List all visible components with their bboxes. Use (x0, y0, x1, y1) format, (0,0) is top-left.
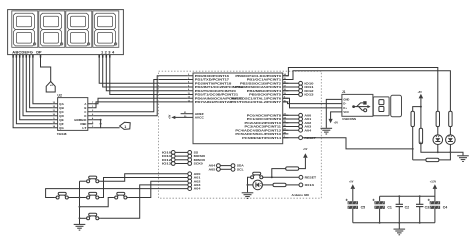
U2 right pin numbers (92, 102, 94, 128)
svg-text:C4: C4 (443, 205, 448, 209)
ground (capacitor bank) (394, 229, 406, 235)
wire S1 to A00 (100, 174, 188, 181)
svg-text:C1: C1 (387, 205, 392, 209)
wire S6 to ground bus (80, 217, 86, 219)
wire +5V rail right (420, 98, 422, 106)
svg-text:ABCDEFG: ABCDEFG (12, 50, 33, 55)
wire U2 BI/RBO RBI LT tie (93, 120, 100, 128)
wire +5V to resistor R5 (420, 107, 422, 131)
junction C2 top (398, 195, 400, 197)
display digit 2 segments (41, 13, 62, 46)
junction RBI (100, 123, 102, 125)
svg-text:A04: A04 (194, 187, 202, 191)
LED L13 pin13 indicator (253, 180, 263, 190)
ground (led bus) (457, 156, 469, 162)
svg-text:SCL: SCL (237, 167, 244, 171)
wire MCU PB2 to IO10 (283, 82, 299, 84)
wire C2 to top rail (398, 196, 400, 204)
MCU right pin labels PB (231, 74, 282, 104)
net stub SS (188, 151, 192, 155)
net stub circle IO12 (171, 158, 175, 162)
J1 pin labels (343, 97, 349, 114)
display pin pads (13, 55, 110, 58)
svg-text:VCC: VCC (343, 110, 349, 114)
net stub circle A04 (button side) (188, 187, 192, 191)
wire MCU PC6 to RESET stub (283, 137, 299, 139)
svg-text:A01: A01 (304, 117, 312, 121)
LED D1 (433, 135, 443, 145)
wire S6 to A03 (100, 185, 188, 218)
display digit 3 segments (68, 13, 89, 46)
wire MCU PB1 to LED2 column (283, 71, 451, 112)
wire S2 to ground bus (70, 197, 80, 199)
capacitor C3 ceramic (416, 204, 423, 206)
wire C3 to bottom rail (419, 207, 421, 223)
svg-text:C3: C3 (425, 205, 430, 209)
capacitor C2 ceramic (396, 204, 403, 206)
svg-text:LT: LT (82, 126, 86, 130)
svg-text:U2: U2 (57, 93, 62, 97)
wire RESET net to pullup junction (303, 138, 413, 149)
net stub RESET (button side) (299, 175, 303, 179)
wire IO10 to SS (175, 151, 188, 153)
svg-text:+5V: +5V (303, 148, 308, 151)
MCU right pin labels PC (235, 114, 281, 140)
resistor R6 (426, 158, 439, 161)
wire MCU PC4 to A04 (283, 129, 299, 131)
wire LED1 to bus (437, 145, 439, 153)
pushbutton S3 middle (85, 192, 100, 199)
USB plug metal shell (373, 97, 389, 116)
MCU left pin stubs PD0-PD7 (187, 76, 193, 102)
wire display com 4 to MCU PD5 (110, 55, 188, 95)
resistor R2 reset pullup (286, 167, 299, 170)
resistor R8 LED2 series (449, 111, 452, 126)
wire +3.3V to C4 (434, 189, 436, 201)
display digit 4 segments (95, 13, 116, 46)
svg-text:A00: A00 (304, 113, 312, 117)
junction LED13 cathode (247, 184, 249, 186)
wire A05 to SCL (220, 168, 231, 170)
U2 left pin labels (59, 102, 65, 130)
svg-text:1234: 1234 (101, 50, 115, 55)
svg-text:PD7/AIN1/PCINT23: PD7/AIN1/PCINT23 (195, 100, 232, 104)
svg-text:DP: DP (36, 50, 42, 55)
wire MCU PC0 to A00 (283, 114, 299, 116)
wire display segment F to U2 QB (30, 55, 53, 108)
wire display segment C to U2 QE (20, 55, 53, 120)
pushbutton S2 left (55, 192, 70, 199)
wire S3 to A01 (100, 178, 188, 198)
ground (button bus) (74, 224, 86, 230)
junction C3 bottom (419, 222, 421, 224)
svg-text:D+: D+ (343, 106, 347, 110)
wire R2 to reset button junction (272, 169, 286, 178)
wire LED2 to bus (449, 145, 451, 153)
junction bus S2/S3 (79, 197, 81, 199)
junction reset button node (271, 176, 273, 178)
net stub circle A05 i2c (217, 167, 221, 171)
net stub A03 (299, 125, 303, 129)
wire S1 to ground bus (80, 180, 86, 182)
display digit 1 decimal point (33, 43, 35, 45)
wire R7 to LED1 (437, 127, 439, 135)
net stub IO10 (299, 81, 303, 85)
wire +5V to C5 (352, 189, 354, 201)
svg-text:IO13: IO13 (162, 162, 172, 166)
wire A04 to SDA (220, 165, 231, 167)
capacitor C1 electrolytic (374, 201, 384, 209)
wire C2 to bottom rail (398, 207, 400, 229)
wire S3 to ground bus (80, 197, 86, 199)
wire U2 C to MCU PD1 (93, 80, 187, 112)
USB shell contact hole 1 (379, 100, 384, 105)
MCU AVCC pin stub (175, 116, 193, 118)
wire display com 1 to MCU PD2 (99, 55, 187, 84)
svg-text:PB7/TOSC2/XTAL2/PCINT7: PB7/TOSC2/XTAL2/PCINT7 (231, 100, 282, 104)
wire R3 to IO13 stub (286, 184, 299, 186)
pushbutton S1 top (85, 176, 100, 183)
U2 left pin numbers (53, 102, 56, 128)
svg-text:IO11: IO11 (304, 85, 314, 89)
svg-text:MISO0: MISO0 (194, 158, 206, 162)
svg-text:Arduino 328: Arduino 328 (292, 193, 310, 197)
svg-text:IO10: IO10 (304, 81, 314, 85)
svg-text:SCK0: SCK0 (194, 162, 204, 166)
USB shell contact hole 2 (379, 107, 384, 112)
svg-text:+5V: +5V (334, 121, 339, 124)
svg-text:A04: A04 (304, 128, 312, 132)
MCU right pin numbers (284, 73, 287, 138)
svg-text:IO13: IO13 (304, 93, 314, 97)
svg-text:IO11: IO11 (162, 154, 172, 158)
net stub circle A03 (button side) (188, 183, 192, 187)
net stub SCL (231, 167, 235, 171)
wire MCU PB5 to IO13 (283, 94, 299, 96)
net stub A01 (299, 117, 303, 121)
svg-text:1: 1 (124, 125, 126, 129)
capacitor bottom rail (353, 222, 435, 224)
U2 right pin labels (74, 102, 87, 130)
wire IO12 to MISO0 (175, 159, 188, 161)
net stub A00 (299, 113, 303, 117)
wire U2 B to MCU PD7 (93, 102, 187, 108)
wire U2 A to MCU PD6 (93, 98, 187, 104)
USB connector J1 body (342, 94, 373, 116)
svg-text:RESET: RESET (305, 175, 317, 179)
wire display com 2 to MCU PD3 (103, 55, 188, 87)
display digit cell 1 (12, 11, 38, 47)
wire display segment A to U2 QG (13, 55, 52, 128)
resistor R3 series pin13 (273, 183, 286, 186)
net stub IO11 (299, 85, 303, 89)
junction bus S4 (79, 206, 81, 208)
display digit cell 3 (66, 11, 92, 47)
wire display segment G to U2 QA (33, 55, 52, 104)
wire R5 to led cathode bus (421, 142, 463, 156)
net stub A02 (299, 121, 303, 125)
svg-text:SS: SS (194, 151, 199, 155)
net stub IO13 (299, 93, 303, 97)
wire LED13 to resistor R3 (263, 184, 274, 186)
display digit 1 segments (14, 13, 35, 46)
svg-text:+5V: +5V (418, 91, 423, 94)
svg-text:A04: A04 (209, 164, 217, 168)
svg-text:MOSI0: MOSI0 (194, 154, 206, 158)
wire display segment E to U2 QC (26, 55, 52, 112)
ground (reset/led module) (242, 193, 254, 199)
capacitor C5 electrolytic (348, 201, 358, 209)
net flag 1 (DP net) (46, 82, 55, 93)
wire display com 3 to MCU PD4 (106, 55, 187, 91)
svg-text:A03: A03 (194, 183, 202, 187)
svg-text:A00: A00 (194, 172, 202, 176)
svg-text:+3.3V: +3.3V (430, 180, 437, 183)
junction C3 top (419, 195, 421, 197)
net stub IO12 (299, 89, 303, 93)
wire MCU PB0 to LED1 column (283, 68, 438, 112)
wire C5 to bottom rail (352, 209, 354, 223)
net stub circle A04 i2c (217, 164, 221, 168)
svg-text:IO12: IO12 (162, 158, 172, 162)
wire R8 to LED2 (449, 127, 451, 135)
wire U2 D to MCU PD0 (93, 76, 187, 116)
svg-text:A02: A02 (194, 179, 202, 183)
svg-text:+5V: +5V (168, 114, 171, 119)
junction LED2 bus (449, 151, 451, 153)
wire MCU PB6 to USB D+ (283, 98, 337, 108)
svg-text:IO13: IO13 (305, 183, 315, 187)
wire S4 to ground jog (80, 198, 114, 207)
wire MCU PB4 to IO12 (283, 90, 299, 92)
svg-text:74LS48: 74LS48 (57, 132, 67, 136)
wire J1 GND to ground (326, 99, 336, 128)
svg-text:C5: C5 (361, 205, 366, 209)
net stub circle IO10 (171, 151, 175, 155)
svg-text:A03: A03 (304, 125, 312, 129)
USB plug end cap (391, 95, 402, 117)
MCU AREF pin stub (181, 113, 193, 115)
net stub MOSI0 (188, 154, 192, 158)
wire display segment D to U2 QD (23, 55, 52, 116)
wire MCU PB3 to IO11 (283, 86, 299, 88)
net stub circle IO13 (171, 162, 175, 166)
MCU right pin stubs (283, 76, 289, 138)
wire R4 to reset junction (412, 127, 414, 160)
junction BI/RBO (100, 119, 102, 121)
svg-text:IO10: IO10 (162, 151, 172, 155)
LED D2 (446, 135, 456, 145)
display digit 4 decimal point (114, 43, 116, 45)
net stub RESET (299, 136, 303, 140)
wire +5V to reset pullup R4 (413, 107, 421, 112)
resistor R5 (419, 128, 422, 143)
svg-text:SDA: SDA (237, 164, 244, 168)
svg-text:A05: A05 (209, 167, 217, 171)
junction LED1 bus (437, 151, 439, 153)
reset pushbutton S5 (249, 172, 264, 179)
net stub IO13 (led side) (299, 183, 303, 187)
wire LED13 to ground stem (248, 184, 253, 186)
U2 right pin stubs (88, 104, 93, 128)
wire C1 to top rail (379, 196, 381, 201)
wire LT tie to net flag 1 (101, 127, 120, 129)
wire R6 to bus (439, 152, 451, 160)
microcontroller U3 ATmega328 body (193, 73, 283, 144)
wire MCU PC2 to A02 (283, 122, 299, 124)
net stub SCK0 (188, 162, 192, 166)
wire S4 to A02 (128, 181, 188, 197)
wire J1 VCC to +5V arrow (331, 112, 337, 119)
wire S2 to A04 (46, 189, 188, 198)
net stub SDA (231, 164, 235, 168)
wire display DP to net flag 1 (41, 55, 51, 82)
pushbutton S6 bottom (85, 213, 100, 220)
display digit 2 decimal point (60, 43, 62, 45)
4-digit 7-segment display U1 body (8, 10, 124, 55)
junction reset net right (412, 148, 414, 150)
svg-text:D-: D- (343, 102, 346, 106)
wire IO11 to MOSI0 (175, 155, 188, 157)
U2 left pin stubs QA-QG (52, 104, 57, 128)
wire MCU PC3 to A03 (283, 126, 299, 128)
wire +5V to reset pullup resistor R2 (299, 158, 306, 169)
svg-text:A01: A01 (194, 176, 202, 180)
net stub MISO0 (188, 158, 192, 162)
MCU left pin numbers (188, 74, 191, 102)
+5V arrow down at USB VCC (329, 119, 333, 123)
svg-text:1: 1 (49, 84, 53, 86)
display digit cell 2 (39, 11, 65, 47)
wire display segment B to U2 QF (16, 55, 52, 124)
wire MCU PB7 to USB D- (283, 102, 337, 104)
net stub circle A02 (button side) (188, 179, 192, 183)
wire reset junction through R6 to bus (413, 159, 426, 161)
net stub circle A01 (button side) (188, 176, 192, 180)
svg-text:J1: J1 (342, 90, 346, 94)
wire C4 to bottom rail (434, 209, 436, 223)
capacitor C4 plus mark (428, 199, 430, 201)
net stub circle A00 (button side) (188, 172, 192, 176)
display digit 3 decimal point (87, 43, 89, 45)
svg-text:C2: C2 (405, 205, 410, 209)
svg-text:USBCONN: USBCONN (342, 117, 356, 121)
decoder U2 74LS48 body (58, 98, 88, 131)
net stub circle IO11 (171, 154, 175, 158)
J1 USB trident icon (352, 101, 370, 112)
capacitor top rail (380, 195, 435, 197)
wire IO13 to SCK0 (175, 163, 188, 165)
wire reset button to RESET net stub (264, 176, 299, 178)
ground (USB) (321, 128, 333, 134)
net stub A04 (299, 128, 303, 132)
junction C1 bottom (379, 222, 381, 224)
capacitor C4 electrolytic (430, 201, 440, 209)
wire reset button to ground stem (248, 177, 250, 192)
display digit cell 4 (93, 11, 119, 47)
button ground bus (79, 181, 81, 224)
capacitor C1 plus mark (372, 199, 374, 201)
svg-text:QG: QG (59, 126, 64, 130)
+5V arrow at AVCC (171, 116, 175, 119)
junction +5V rail (420, 106, 422, 108)
wire MCU PC1 to A01 (283, 118, 299, 120)
wire C1 to bottom rail (379, 209, 381, 223)
svg-text:+5V: +5V (349, 180, 354, 183)
resistor R7 LED1 series (436, 111, 439, 126)
svg-text:IO12: IO12 (304, 89, 314, 93)
resistor R4 reset pullup 10k (411, 111, 414, 126)
junction C2 bottom (398, 222, 400, 224)
svg-text:GND: GND (343, 97, 349, 101)
wire C3 to top rail (419, 196, 421, 204)
MCU left pin labels (195, 74, 243, 120)
capacitor C5 plus mark (346, 199, 348, 201)
svg-text:A02: A02 (304, 121, 312, 125)
pushbutton S4 right (113, 192, 128, 199)
J1 pin stubs (337, 99, 342, 112)
net flag 1 (U2 lamp test net) (120, 122, 131, 129)
Arduino 328 module dashed boundary (159, 71, 322, 198)
svg-text:AVCC: AVCC (195, 116, 205, 120)
junction bus S6 (79, 217, 81, 219)
svg-text:PC6/RESET/PCINT14: PC6/RESET/PCINT14 (242, 136, 281, 140)
